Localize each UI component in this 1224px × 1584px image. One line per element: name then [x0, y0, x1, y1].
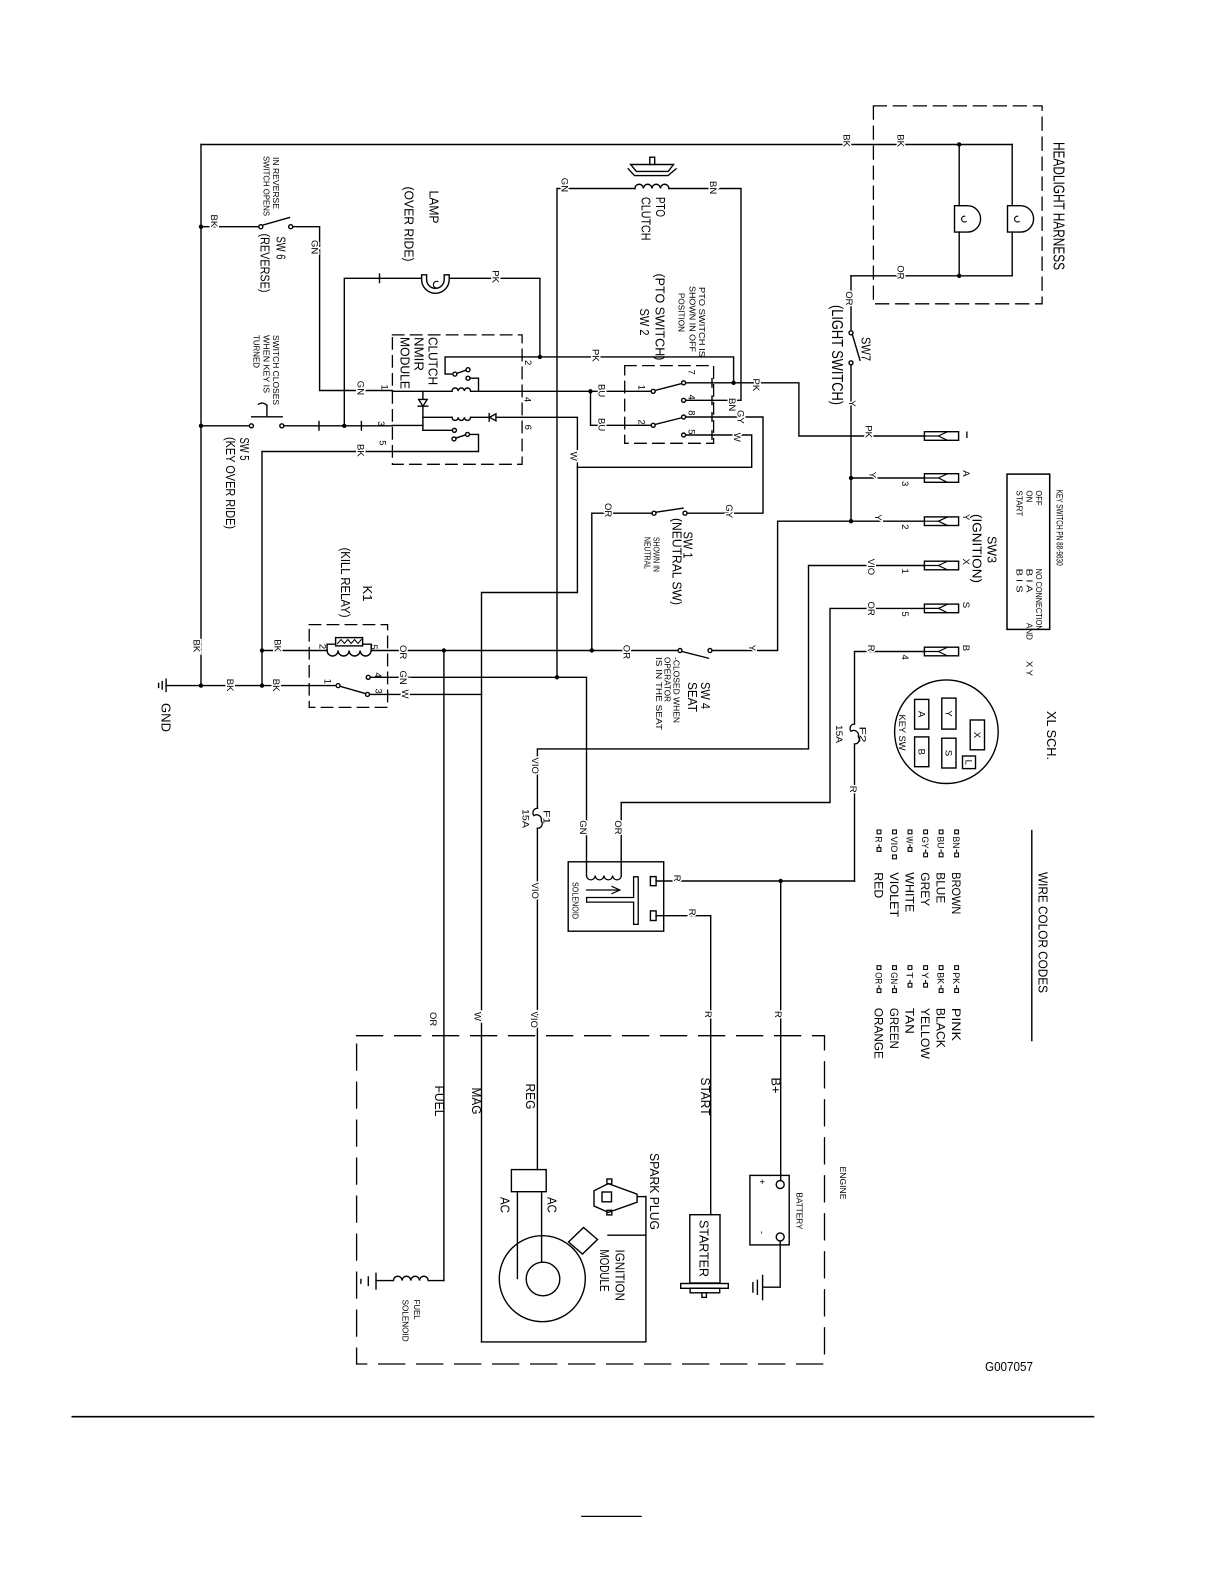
- svg-text:R: R: [873, 837, 884, 843]
- svg-text:(IGNITION): (IGNITION): [970, 514, 985, 583]
- svg-text:ENGINE: ENGINE: [838, 1167, 847, 1200]
- key switch terminal 3 spade: [924, 474, 958, 483]
- svg-text:WIRE COLOR CODES: WIRE COLOR CODES: [1035, 872, 1050, 993]
- svg-text:+: +: [756, 1179, 767, 1185]
- svg-text:IGNITION: IGNITION: [612, 1250, 627, 1302]
- svg-text:OR: OR: [865, 602, 876, 616]
- wire PK lamp to module pin2: [449, 278, 540, 357]
- svg-text:3: 3: [375, 421, 386, 426]
- key plug pin B: [915, 737, 929, 767]
- svg-text:GN: GN: [559, 178, 570, 192]
- svg-text:BU: BU: [935, 837, 946, 849]
- svg-text:OR: OR: [397, 645, 408, 659]
- label I term1: [966, 432, 968, 439]
- headlight lamp 1: [955, 206, 981, 232]
- AC block: [511, 1170, 546, 1192]
- ignition pickup coil: [569, 1228, 598, 1255]
- svg-text:5: 5: [368, 644, 379, 649]
- svg-text:VIO: VIO: [529, 758, 540, 774]
- svg-text:WHITE: WHITE: [902, 872, 916, 912]
- wire GN SW6 to module pin1: [293, 227, 393, 391]
- svg-text:OR: OR: [602, 503, 613, 517]
- svg-text:4: 4: [899, 655, 910, 660]
- svg-text:4: 4: [372, 672, 383, 677]
- svg-text:AND: AND: [1024, 623, 1033, 640]
- wire color codes rule: [1031, 831, 1033, 1041]
- svg-text:BK: BK: [208, 215, 219, 228]
- svg-text:R: R: [686, 909, 697, 916]
- wire R solenoid bottom to starter: [656, 916, 711, 1215]
- svg-text:W: W: [472, 1012, 483, 1021]
- svg-text:TAN: TAN: [902, 1008, 916, 1034]
- svg-text:BK: BK: [272, 639, 283, 652]
- wire PK module pin2 to SW2 pin7 junction: [522, 357, 734, 383]
- battery terminal -: [776, 1233, 784, 1241]
- svg-text:OR: OR: [612, 820, 623, 834]
- wire PK SW2 pin7 to key switch: [686, 383, 925, 436]
- lamp (OVER RIDE): [422, 275, 450, 294]
- key switch terminal X spade: [924, 561, 958, 570]
- ground GND symbol: [159, 679, 167, 691]
- svg-text:(OVER RIDE): (OVER RIDE): [402, 187, 417, 262]
- svg-text:CLUTCH: CLUTCH: [639, 197, 654, 241]
- key plug pin A: [915, 699, 929, 729]
- svg-text:SEAT: SEAT: [685, 682, 700, 712]
- svg-text:PK: PK: [950, 972, 961, 985]
- svg-text:B I A: B I A: [1024, 569, 1033, 594]
- switch SW5 (KEY OVER RIDE) pushbutton: [249, 424, 253, 428]
- svg-text:(PTO SWITCH): (PTO SWITCH): [653, 274, 668, 361]
- svg-text:B I S: B I S: [1015, 569, 1024, 593]
- wire GY SW2 pin8 to SW1: [686, 417, 763, 513]
- wire Y SW4 to key switch terminal 2: [712, 521, 924, 650]
- svg-text:ORANGE: ORANGE: [871, 1008, 885, 1059]
- switch SW7 (LIGHT SWITCH): [850, 276, 852, 331]
- svg-text:START: START: [698, 1078, 713, 1116]
- page underline: [582, 1515, 641, 1517]
- switch SW2 contacts: [651, 389, 655, 393]
- switch SW4 (SEAT): [678, 649, 682, 653]
- svg-text:W: W: [731, 433, 742, 442]
- svg-text:VIO: VIO: [888, 837, 899, 853]
- svg-text:Y: Y: [943, 710, 954, 717]
- svg-text:Y: Y: [872, 514, 883, 521]
- svg-text:B: B: [915, 749, 926, 755]
- svg-text:PK: PK: [750, 379, 761, 392]
- svg-text:R: R: [772, 1011, 783, 1018]
- key switch terminal 1 spade: [924, 432, 958, 441]
- svg-text:BK: BK: [935, 972, 946, 985]
- svg-text:SW 6: SW 6: [274, 237, 289, 260]
- SW2 dashed box: [625, 366, 714, 444]
- GND row: [166, 685, 336, 687]
- svg-text:Y: Y: [867, 472, 878, 479]
- key switch plug circle: [895, 680, 999, 784]
- wire BN PTO clutch to SW2 pin4: [669, 189, 741, 401]
- svg-text:T: T: [904, 972, 915, 978]
- wire AC right: [541, 1192, 543, 1262]
- wire BU module pin4 to SW2 pin1: [522, 390, 651, 392]
- svg-text:(KEY OVER RIDE): (KEY OVER RIDE): [223, 437, 238, 529]
- module internal relay switch 1: [453, 372, 457, 376]
- svg-text:2: 2: [899, 524, 910, 529]
- junction dots: [199, 225, 203, 229]
- svg-text:IS IN THE SEAT: IS IN THE SEAT: [654, 657, 663, 730]
- svg-text:BN: BN: [707, 181, 718, 194]
- svg-text:SWITCH OPENS: SWITCH OPENS: [261, 156, 270, 216]
- svg-text:2: 2: [635, 420, 646, 425]
- svg-text:W: W: [399, 690, 410, 699]
- svg-text:OR: OR: [843, 291, 854, 305]
- wire OR K1 pin5 to SW4: [371, 650, 678, 652]
- svg-text:AC: AC: [498, 1197, 513, 1213]
- starter body: [690, 1215, 720, 1283]
- svg-text:Y: Y: [846, 400, 857, 407]
- svg-text:(NEUTRAL SW): (NEUTRAL SW): [670, 518, 685, 605]
- key switch terminal S spade: [924, 604, 958, 613]
- svg-text:FUEL: FUEL: [432, 1086, 447, 1117]
- color code BU BLUE: [933, 830, 947, 903]
- key plug pin L: [963, 756, 976, 769]
- wire W K1 pin3: [370, 693, 482, 695]
- svg-text:B: B: [960, 645, 971, 651]
- wire battery negative to ground: [763, 1241, 781, 1287]
- svg-text:1: 1: [322, 679, 333, 684]
- wire OR SW1 to SW4 row: [592, 513, 652, 650]
- flywheel outer: [499, 1236, 585, 1322]
- PTO clutch symbol: [650, 157, 655, 164]
- wire W down to engine MAG: [482, 467, 578, 1342]
- svg-text:PTO SWITCH IS: PTO SWITCH IS: [697, 287, 706, 357]
- K1 relay coil with resistor: [327, 644, 371, 650]
- color code BK BLACK: [933, 966, 947, 1048]
- svg-text:MODULE: MODULE: [397, 337, 412, 389]
- svg-text:Y: Y: [960, 514, 971, 521]
- svg-text:VIOLET: VIOLET: [887, 872, 901, 918]
- svg-text:7: 7: [685, 370, 696, 375]
- headlight lamp 2: [1008, 206, 1034, 232]
- svg-text:5: 5: [377, 440, 388, 445]
- svg-text:SW 5: SW 5: [237, 438, 252, 461]
- svg-text:-CLOSED WHEN: -CLOSED WHEN: [671, 657, 680, 723]
- module row 1-4 with coil: [392, 390, 452, 392]
- headlight lamp 1 drops: [958, 145, 960, 276]
- svg-text:BK: BK: [191, 640, 202, 653]
- wire GN PTO clutch: [557, 189, 635, 678]
- svg-text:GY: GY: [723, 504, 734, 518]
- svg-text:4: 4: [685, 395, 696, 400]
- color code VIO VIOLET: [887, 830, 901, 918]
- svg-text:YELLOW: YELLOW: [918, 1008, 932, 1060]
- svg-text:1: 1: [899, 569, 910, 574]
- color code PK PINK: [949, 966, 963, 1041]
- svg-text:X: X: [971, 732, 982, 739]
- svg-text:1: 1: [379, 385, 390, 390]
- svg-text:GY: GY: [735, 410, 746, 424]
- svg-text:(KILL RELAY): (KILL RELAY): [338, 548, 353, 618]
- svg-text:HEADLIGHT HARNESS: HEADLIGHT HARNESS: [1050, 142, 1067, 270]
- svg-text:K1: K1: [360, 586, 375, 602]
- solenoid coil: [587, 876, 622, 880]
- svg-text:OR: OR: [427, 1012, 438, 1026]
- svg-text:FUEL: FUEL: [412, 1300, 421, 1321]
- svg-text:R: R: [671, 875, 682, 882]
- wire BK left vertical: [200, 145, 202, 686]
- svg-text:S: S: [960, 602, 971, 608]
- solenoid contact bottom right: [650, 911, 656, 921]
- key switch terminal 2 spade: [924, 517, 958, 526]
- key switch terminal B spade: [924, 647, 958, 656]
- svg-text:OPERATOR: OPERATOR: [663, 657, 672, 702]
- module internal switch 2: [423, 429, 453, 431]
- svg-text:SHOWN IN: SHOWN IN: [652, 537, 661, 572]
- switch SW1 (NEUTRAL SW): [652, 511, 656, 515]
- wire GN K1 pin4 to solenoid: [370, 677, 586, 875]
- svg-text:SW7: SW7: [859, 337, 874, 361]
- wire AC left: [516, 1192, 518, 1279]
- svg-text:BK: BK: [841, 134, 852, 147]
- svg-text:AC: AC: [545, 1197, 560, 1213]
- svg-text:4: 4: [522, 397, 533, 402]
- svg-text:2: 2: [522, 360, 533, 365]
- fuse F1 15A: [533, 808, 542, 828]
- svg-text:F1: F1: [541, 810, 552, 824]
- color code R RED: [871, 830, 885, 899]
- svg-text:A: A: [960, 470, 971, 477]
- svg-text:15A: 15A: [519, 809, 530, 829]
- key plug pin X: [970, 720, 984, 750]
- wire OR key terminal S to solenoid: [621, 608, 924, 875]
- svg-text:OR: OR: [621, 645, 632, 659]
- wire R solenoid top row: [656, 880, 854, 882]
- svg-text:R: R: [702, 1011, 713, 1018]
- clutch NMIR module box: [392, 335, 522, 464]
- headlight lamp 2 drops: [1011, 145, 1013, 276]
- svg-text:GY: GY: [919, 837, 930, 850]
- svg-text:TURNED: TURNED: [252, 335, 261, 368]
- bottom rule: [72, 1416, 1093, 1418]
- svg-text:S: S: [943, 750, 954, 756]
- wire BK to K1 pin2: [262, 650, 327, 652]
- color code GY GREY: [918, 830, 932, 906]
- svg-text:SW3: SW3: [984, 536, 999, 563]
- svg-text:KEY SWITCH PN 88-9830: KEY SWITCH PN 88-9830: [1054, 490, 1065, 566]
- svg-text:15A: 15A: [833, 725, 844, 744]
- wire R B+ to battery: [780, 881, 782, 1181]
- color code GN GREEN: [887, 966, 901, 1049]
- svg-text:A: A: [915, 711, 926, 718]
- engine dashed box: [357, 1036, 825, 1364]
- wire R key terminal B to F2: [855, 652, 925, 882]
- ignition module box: [482, 1197, 646, 1342]
- flywheel inner: [526, 1262, 560, 1296]
- svg-text:MODULE: MODULE: [597, 1250, 612, 1292]
- wire Y SW7 to key switch: [850, 365, 852, 521]
- fuse F2 15A: [850, 724, 859, 744]
- solenoid plunger T: [587, 877, 639, 925]
- svg-text:STARTER: STARTER: [697, 1220, 712, 1277]
- svg-text:KEY SW: KEY SW: [896, 715, 907, 751]
- svg-text:LAMP: LAMP: [427, 191, 442, 224]
- svg-text:WHEN KEY IS: WHEN KEY IS: [261, 335, 270, 393]
- svg-text:Y: Y: [746, 645, 757, 652]
- svg-text:SWITCH CLOSES: SWITCH CLOSES: [271, 335, 280, 405]
- svg-text:BU: BU: [596, 384, 607, 397]
- wire BK top bus: [201, 144, 1012, 146]
- K1 pin4 contact: [366, 675, 370, 679]
- svg-text:BROWN: BROWN: [949, 872, 963, 914]
- solenoid contact top right: [650, 877, 656, 886]
- svg-text:BK: BK: [224, 679, 235, 692]
- svg-text:VIO: VIO: [529, 883, 540, 899]
- svg-text:R: R: [865, 645, 876, 652]
- color code BN BROWN: [949, 830, 963, 914]
- svg-text:NO CONNECTION: NO CONNECTION: [1034, 569, 1043, 631]
- key plug pin Y: [942, 698, 956, 729]
- wire BK to SW6: [201, 226, 259, 228]
- svg-text:8: 8: [685, 410, 696, 415]
- svg-text:XL SCH.: XL SCH.: [1044, 711, 1059, 760]
- switch SW6 (REVERSE): [259, 225, 263, 229]
- wire lamp branch: [344, 278, 421, 426]
- SW2 pin ticks: [711, 379, 713, 440]
- solenoid box: [568, 862, 664, 931]
- svg-text:CLUTCH: CLUTCH: [426, 337, 441, 385]
- svg-text:3: 3: [373, 689, 384, 694]
- svg-text:GREEN: GREEN: [887, 1008, 901, 1049]
- spark plug: [594, 1184, 637, 1213]
- svg-text:L: L: [963, 760, 974, 765]
- svg-text:PK: PK: [590, 349, 601, 362]
- svg-text:(REVERSE): (REVERSE): [258, 234, 273, 293]
- wire W SW2 pin5: [577, 435, 751, 467]
- svg-text:PTO: PTO: [653, 197, 668, 217]
- svg-text:GREY: GREY: [918, 872, 932, 906]
- solenoid arrow: [587, 886, 621, 893]
- svg-text:1: 1: [635, 385, 646, 390]
- PTO clutch coil: [635, 184, 669, 188]
- svg-text:2: 2: [316, 644, 327, 649]
- svg-text:SPARK PLUG: SPARK PLUG: [647, 1153, 662, 1230]
- color code T TAN: [902, 966, 916, 1034]
- color code Y YELLOW: [918, 966, 932, 1060]
- svg-text:SOLENOID: SOLENOID: [401, 1300, 410, 1342]
- svg-text:5: 5: [685, 429, 696, 434]
- svg-text:6: 6: [522, 425, 533, 430]
- svg-text:3: 3: [899, 481, 910, 486]
- svg-text:GN: GN: [888, 972, 899, 984]
- svg-text:REG: REG: [523, 1084, 538, 1110]
- svg-text:5: 5: [899, 611, 910, 616]
- svg-text:W: W: [568, 452, 579, 461]
- wire spark plug: [637, 1196, 646, 1198]
- wire OR FUEL branch: [443, 651, 445, 1281]
- starter flange: [681, 1284, 729, 1289]
- module diode D1: [418, 391, 428, 430]
- svg-text:MAG: MAG: [469, 1088, 484, 1115]
- key switch PN box: [1007, 474, 1050, 629]
- battery terminal +: [776, 1181, 784, 1189]
- color code OR ORANGE: [871, 966, 885, 1059]
- fuel solenoid coil: [377, 1276, 444, 1280]
- svg-text:VIO: VIO: [865, 559, 876, 575]
- svg-text:-: -: [756, 1231, 767, 1234]
- K1 relay dashed box: [309, 625, 387, 708]
- ground battery: [753, 1275, 763, 1299]
- svg-text:BATTERY: BATTERY: [794, 1193, 803, 1231]
- svg-text:BN: BN: [950, 837, 961, 849]
- svg-text:F2: F2: [856, 727, 867, 743]
- svg-text:(LIGHT SWITCH): (LIGHT SWITCH): [828, 305, 845, 405]
- svg-text:BU: BU: [596, 418, 607, 431]
- svg-text:RED: RED: [871, 872, 885, 898]
- svg-text:PK: PK: [490, 270, 501, 283]
- svg-text:PK: PK: [863, 425, 874, 438]
- svg-text:Y: Y: [919, 972, 930, 979]
- key plug pin S: [942, 738, 956, 768]
- svg-text:BK: BK: [270, 679, 281, 692]
- svg-text:PINK: PINK: [949, 1008, 963, 1041]
- svg-text:W: W: [904, 837, 915, 844]
- svg-text:OFF: OFF: [1034, 490, 1043, 505]
- svg-text:BLUE: BLUE: [933, 872, 947, 903]
- svg-text:ON: ON: [1024, 490, 1033, 502]
- svg-text:START: START: [1015, 490, 1024, 516]
- color code W WHITE: [902, 830, 916, 912]
- svg-text:GN: GN: [577, 820, 588, 834]
- wire Y key terminal 3: [851, 477, 924, 479]
- module row coil2 + diode D2 to pin6: [423, 416, 452, 418]
- wire VIO key terminal X to F1 and REG: [537, 566, 924, 1170]
- svg-text:GND: GND: [159, 703, 174, 732]
- svg-text:BK: BK: [355, 444, 366, 457]
- wire OR headlight harness row: [851, 275, 1012, 277]
- svg-text:NMIR: NMIR: [412, 337, 427, 371]
- svg-text:BLACK: BLACK: [933, 1008, 947, 1048]
- svg-text:GN: GN: [397, 671, 408, 685]
- wire SW5 to module pin3 with inline connector ticks: [284, 425, 393, 427]
- wire BU branch to SW2 pin2: [591, 391, 652, 425]
- svg-text:SW 2: SW 2: [637, 309, 652, 336]
- svg-text:B+: B+: [769, 1078, 784, 1094]
- module pin3 internal: [392, 424, 423, 426]
- svg-text:NEUTRAL: NEUTRAL: [643, 537, 652, 569]
- svg-text:IN REVERSE: IN REVERSE: [271, 157, 280, 209]
- battery box: [750, 1175, 789, 1245]
- headlight harness dashed box: [873, 106, 1042, 304]
- wire BK to SW5: [201, 425, 249, 427]
- svg-text:G007057: G007057: [985, 1359, 1033, 1374]
- svg-text:OR: OR: [895, 265, 906, 279]
- svg-text:VIO: VIO: [528, 1012, 539, 1028]
- svg-text:GN: GN: [309, 240, 320, 254]
- wire W module pin6: [522, 417, 577, 467]
- svg-text:SOLENOID: SOLENOID: [570, 882, 579, 919]
- svg-text:X Y: X Y: [1024, 661, 1033, 677]
- module pin2 internal row: [445, 357, 522, 374]
- svg-text:GN: GN: [355, 381, 366, 395]
- svg-text:POSITION: POSITION: [677, 293, 686, 332]
- svg-text:SHOWN IN OFF: SHOWN IN OFF: [687, 286, 696, 352]
- relay K1 switch: [336, 684, 340, 688]
- svg-text:BK: BK: [895, 134, 906, 147]
- wire BK module pin5 to K1: [262, 452, 392, 686]
- svg-text:R: R: [847, 786, 858, 793]
- svg-text:OR: OR: [873, 972, 884, 984]
- ground fuel solenoid: [361, 1273, 376, 1289]
